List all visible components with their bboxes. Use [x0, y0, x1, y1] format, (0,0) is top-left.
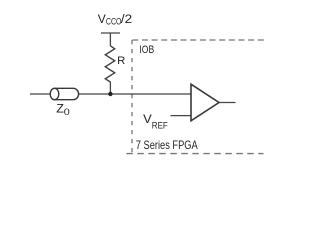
- svg-text:IOB: IOB: [139, 44, 154, 56]
- svg-text:7 Series FPGA: 7 Series FPGA: [136, 138, 198, 152]
- svg-text:R: R: [117, 55, 125, 67]
- svg-text:/2: /2: [121, 12, 133, 26]
- svg-text:REF: REF: [152, 120, 169, 130]
- svg-text:CCO: CCO: [106, 17, 122, 27]
- svg-text:0: 0: [64, 107, 70, 117]
